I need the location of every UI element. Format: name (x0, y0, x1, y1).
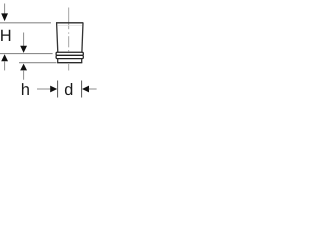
d right extension line (81, 81, 83, 98)
fitting inner rim line (58, 24, 82, 26)
h dimension lower extension line (19, 62, 57, 64)
H dimension top extension line (0, 22, 51, 24)
d left leader line (37, 88, 50, 90)
centerline (vertical dash-dot axis) (68, 8, 70, 71)
fitting bottom edge (57, 62, 82, 64)
collar rib lower (56, 55, 83, 58)
h bottom arrow stem (23, 70, 25, 80)
d right arrowhead (82, 86, 89, 93)
d right leader line (89, 88, 97, 90)
d left extension line (57, 81, 59, 98)
fitting left side wall (57, 23, 58, 52)
fitting body top edge (56, 22, 83, 24)
label d (65, 83, 72, 95)
spigot right wall (81, 59, 83, 63)
label h (22, 83, 29, 95)
label H (1, 30, 10, 41)
h bottom arrowhead (20, 64, 27, 71)
spigot left wall (57, 59, 59, 63)
H bottom arrow stem (4, 61, 6, 70)
h top arrow stem (23, 33, 25, 47)
fitting right side wall (82, 23, 83, 52)
H top arrow stem (4, 4, 6, 14)
h top arrowhead (20, 46, 27, 53)
H top arrowhead (1, 13, 8, 21)
H dimension mid extension line (0, 53, 53, 55)
collar rib upper (56, 52, 83, 55)
H bottom arrowhead (1, 54, 8, 61)
d left arrowhead (50, 86, 57, 93)
